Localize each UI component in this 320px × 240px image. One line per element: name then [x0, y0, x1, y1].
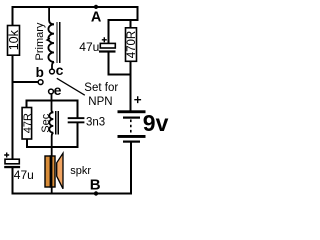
wire combo bottom rail [109, 74, 132, 76]
wire battery to bottom rail [130, 143, 132, 195]
wire secondary to speaker [52, 133, 54, 194]
wire 47u branch bottom [108, 53, 110, 76]
wire 470R to battery [130, 61, 132, 111]
battery 9v [118, 96, 169, 142]
svg-text:47u: 47u [79, 40, 99, 54]
wire left rail lower [12, 168, 14, 194]
wire 47u branch top [108, 19, 110, 44]
terminal b [38, 80, 43, 85]
wire left rail middle [12, 55, 14, 160]
wire inner rail [109, 19, 139, 21]
svg-text:b: b [36, 65, 44, 80]
capacitor 47u (emitter bypass) [4, 153, 34, 183]
resistor 10k [7, 26, 21, 56]
transformer secondary core [56, 111, 59, 134]
capacitor 3n3 [68, 117, 105, 129]
wire 470R riser top [130, 20, 132, 28]
terminal c [50, 69, 55, 74]
svg-text:47u: 47u [14, 168, 34, 182]
wire secondary bottom rail [26, 146, 78, 148]
svg-text:A: A [91, 10, 102, 26]
wire top right drop [137, 6, 139, 21]
wire primary to collector [52, 62, 54, 69]
node A dot [94, 5, 98, 9]
resistor 470R [126, 28, 139, 62]
wire secondary top rail [27, 100, 78, 102]
wire 3n3 riser top [77, 100, 79, 118]
terminal e [49, 89, 54, 94]
wire base branch [12, 81, 39, 83]
svg-text:B: B [90, 176, 101, 193]
capacitor 47u (node A) [79, 37, 115, 54]
svg-text:470R: 470R [126, 31, 138, 59]
svg-text:10k: 10k [7, 29, 21, 50]
svg-text:NPN: NPN [88, 96, 112, 108]
primary winding arrow [47, 38, 50, 41]
wire emitter drop [52, 94, 54, 112]
pointer line to note [57, 78, 85, 95]
wire top rail node A [12, 6, 138, 8]
svg-text:Primary: Primary [34, 22, 46, 60]
svg-text:Set for: Set for [84, 82, 118, 94]
svg-text:9v: 9v [143, 110, 169, 136]
wire 47R riser top [26, 100, 28, 109]
node B dot [94, 191, 98, 195]
svg-text:e: e [54, 82, 62, 98]
svg-text:spkr: spkr [70, 165, 91, 177]
wire primary top drop [49, 6, 54, 24]
wire 3n3 riser bottom [77, 123, 79, 148]
wire bottom rail node B [12, 192, 132, 194]
transformer core [57, 22, 60, 63]
wire left rail upper [12, 6, 14, 26]
transformer secondary winding [49, 112, 53, 132]
svg-text:Sec: Sec [40, 113, 52, 132]
transformer primary winding [48, 24, 54, 62]
svg-text:c: c [56, 62, 64, 78]
wire 47R riser bottom [26, 139, 28, 148]
speaker [45, 153, 91, 189]
svg-text:3n3: 3n3 [86, 117, 105, 129]
svg-text:47R: 47R [22, 113, 34, 133]
resistor 47R [22, 108, 34, 140]
